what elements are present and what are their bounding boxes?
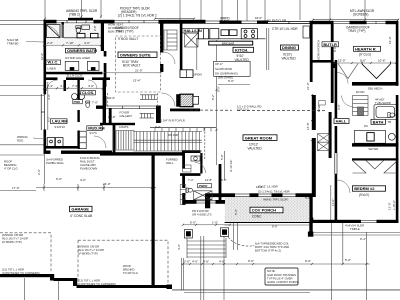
bath/bed divider wall [101,22,104,51]
svg-text:5'-0": 5'-0" [221,178,227,182]
suite door arc [163,52,175,64]
svg-text:10'-6": 10'-6" [378,59,386,63]
svg-text:CTR 10' LVL HDR: CTR 10' LVL HDR [272,27,298,31]
svg-text:9'-0": 9'-0" [155,125,161,129]
entry steps [187,238,226,258]
svg-text:BOX VAULT: BOX VAULT [123,64,140,68]
svg-text:(DN OVHD): (DN OVHD) [218,76,233,80]
svg-text:SLP CLG: SLP CLG [237,108,249,112]
suite east wall lower [160,64,163,72]
bottom vertical x331.5 [331,222,333,300]
owners bath south closet band upper [44,72,103,75]
dim line entry row [183,224,230,226]
window kitchen sink [205,21,220,23]
top dim tick x237.5 [237,0,239,22]
suite west wall seg2 [104,63,107,87]
svg-text:6'-2": 6'-2" [47,116,51,122]
rear yard line y232.5 [311,232,400,234]
garage front wall B [54,278,75,281]
svg-text:4'-0": 4'-0" [80,178,86,182]
porch bottom steps dim vertical x237.5 [237,198,239,250]
top exterior wall segment E [257,21,268,24]
svg-text:UP 17: UP 17 [215,62,223,66]
laundry south wall [44,146,80,149]
svg-text:9'-6": 9'-6" [360,59,366,63]
svg-text:18'-0": 18'-0" [255,16,262,20]
foyer toilet [186,188,192,192]
elevator shaft box [176,94,198,107]
front dim line y264 [181,263,370,265]
bath2 tub [374,105,397,120]
suite dim line y67.5 [103,72,162,74]
porch east wall [309,197,312,233]
svg-text:COATS: COATS [119,125,129,129]
text foyer [120,110,133,117]
water heater circle [79,94,85,100]
powder/closet divider wall [200,153,202,174]
svg-text:4'-0": 4'-0" [177,244,181,250]
walk inner line a [200,236,202,300]
text garden roof tray (hearth) [346,26,370,33]
suite south window band [106,106,156,109]
svg-text:4'-6": 4'-6" [88,84,94,88]
garage dim tick x152 [151,184,153,191]
svg-text:HALL/LIN: HALL/LIN [184,28,202,33]
svg-text:9'x7'6: 9'x7'6 [90,131,98,135]
text picket sldr [118,7,157,18]
label box bedrm2 [353,186,386,191]
window owners suite triple [114,20,159,23]
text garage door note 1 [2,233,28,244]
text roof brg center [123,264,138,275]
svg-text:W/ PATIO DR.: W/ PATIO DR. [267,19,287,23]
hearth south wall [352,82,399,86]
text furred wall mid [166,157,178,165]
svg-text:9'-0": 9'-0" [272,225,278,229]
hall bottom wall over garage [100,152,184,155]
svg-text:LINEN: LINEN [48,66,56,70]
top exterior wall segment A [44,20,57,24]
svg-text:x 10'-0": x 10'-0" [392,200,396,210]
svg-text:6'-6": 6'-6" [56,177,62,181]
svg-text:PWD: PWD [74,100,81,104]
front door wall right part [216,200,231,204]
svg-text:WALL: WALL [166,161,174,165]
text furred plmbg [46,158,65,166]
laundry east wall low [77,110,79,122]
svg-text:17'-6": 17'-6" [12,186,20,190]
bottom vertical x342.8 [342,222,344,264]
porch concrete stipple [225,197,309,222]
bed2 west wall mid [335,126,338,153]
powder vanity [191,156,200,161]
kitchen sink [221,30,237,36]
garage front wall C [77,285,169,288]
label box lndry hall [81,90,96,95]
top exterior wall segment G [350,21,367,24]
kitchen wall ovens [210,29,219,39]
svg-text:11'-0": 11'-0" [331,199,335,206]
top dim tick x77 [81,0,83,18]
master shower door arc [46,26,59,39]
top dim tick x222 [221,0,223,21]
laundry washer [47,138,55,148]
left margin line y85.5 [0,85,44,87]
bed2 south window [360,220,377,222]
mud lockers [78,131,86,149]
svg-text:PWDR: PWDR [199,184,208,188]
dining east cab [303,26,310,38]
dining patio door (thin double line) [268,22,310,24]
svg-text:GREAT ROOM: GREAT ROOM [245,135,273,140]
label box hearth [354,46,381,51]
bath entry arc [88,80,97,89]
kitchen/great room break line x216.5 [216,40,218,165]
walk inner line b [203,236,205,300]
tray lower dashed verticals [108,93,158,107]
dim texts hearth row [338,59,386,63]
left dim line y190 short [0,190,36,192]
svg-text:BOTTOM (TYP 4x 2): BOTTOM (TYP 4x 2) [255,249,281,253]
svg-text:16'-8": 16'-8" [306,122,310,130]
label box nook [198,184,212,188]
suite south wall [96,106,106,109]
garage left thin wall line [44,154,46,184]
top dim tick x330 [329,0,331,19]
svg-text:5'-0": 5'-0" [234,209,238,215]
rotated dim bed2 right [388,200,397,210]
svg-text:16'x8': 16'x8' [317,104,321,112]
top exterior wall segment H corner [386,21,399,24]
label box butler pantry [322,42,339,47]
suite rail balusters upper [140,95,158,100]
svg-text:GALLERY: GALLERY [120,114,133,118]
master shower [47,25,61,38]
garage front corner block [167,285,173,290]
svg-text:8'-0": 8'-0" [333,46,337,52]
text garden roof tray (suite) [115,26,139,33]
garage top wall mid part [61,151,112,154]
dashed porch column arc [228,237,252,246]
note box bottom right [265,268,299,285]
svg-text:9'-4": 9'-4" [360,237,366,241]
svg-text:SCRN PORCH: SCRN PORCH [317,40,321,60]
svg-text:9'1x5'10: 9'1x5'10 [55,125,66,129]
kitchen counter edge [196,38,266,40]
hearth corner fireplace V [362,62,391,79]
svg-text:13'-0": 13'-0" [338,59,346,63]
svg-text:DBL MECH: DBL MECH [368,87,382,91]
foyer west wall upper [109,108,112,125]
dashed garage door left jamb [77,240,79,285]
powder north wall [182,150,201,153]
laundry dryer [55,138,63,148]
svg-text:TRAY (TYP): TRAY (TYP) [348,29,365,33]
svg-text:KITCH.: KITCH. [235,47,248,52]
svg-text:3'-0": 3'-0" [337,104,341,110]
kitchen west cab line [196,39,198,70]
label box hall [334,119,349,124]
powder door arc [195,163,206,174]
svg-text:13'-4": 13'-4" [133,78,141,82]
suite west wall seg1 [104,51,107,57]
svg-text:6'-0": 6'-0" [190,220,196,224]
hearth closet door V left [338,64,358,79]
svg-text:COV PORCH: COV PORCH [252,208,276,213]
main stair treads [134,128,217,151]
svg-text:UP/DN: UP/DN [193,73,202,77]
top dim tick x300 [299,0,301,20]
text garage door note 2 [78,245,104,256]
text tub bath2 [375,98,391,105]
front terrace edge line 2 [184,291,310,293]
great room ridge dashed left part [190,109,232,111]
left margin line y155 [0,154,44,156]
svg-text:CONC: CONC [252,215,262,219]
dim texts suite bottom [92,78,141,119]
great room south corner block [205,193,210,208]
garage dim tick x78 [77,184,79,191]
left exterior wall upper [44,20,47,95]
svg-text:9'-6": 9'-6" [203,260,209,264]
window kitchen range [241,21,258,23]
svg-text:5'-8": 5'-8" [220,154,224,160]
svg-text:MUD.RM: MUD.RM [88,126,105,131]
great room east wall upper [312,95,316,130]
svg-text:GARAGE: GARAGE [71,207,89,212]
garage front step block A [50,274,54,281]
kitchen-dining divider line b [268,28,270,70]
kitchen range [241,29,257,39]
text chase stack [80,156,100,171]
svg-text:LAU.RM: LAU.RM [52,119,68,124]
mud hall door arc [94,136,106,148]
porch center dim line [268,198,270,223]
kitchen fridge [199,29,209,39]
hall east wall at lin closet [180,23,183,72]
front walk right rail [223,236,225,300]
svg-text:VAULTED: VAULTED [282,56,297,60]
svg-text:TRIPLE: TRIPLE [350,227,360,231]
svg-text:4" CONC SLAB: 4" CONC SLAB [70,214,92,218]
svg-text:TUB+SHWR: TUB+SHWR [375,101,391,105]
hearth west wall seg2 [331,62,337,68]
bath2 stair ladder [353,96,369,116]
interior dim slashes x312 [215,64,313,141]
front terrace edge line [172,289,400,291]
top exterior wall segment B [94,20,115,24]
svg-text:BRK BAR: BRK BAR [222,41,234,45]
label box lau rm [51,119,69,124]
right exterior wall [396,21,399,86]
svg-text:(2) 1 3/4x11 7/8 LVL HDR 2: (2) 1 3/4x11 7/8 LVL HDR 2 [118,13,157,17]
garage front wall A [0,274,52,277]
foyer east dim ticks [224,151,226,180]
text sldr triple bed2 [345,224,364,232]
svg-text:VAULTED: VAULTED [248,146,263,150]
front walk left rail b [183,258,185,290]
owners bath south wall c [92,77,110,80]
suite east closet shelves [164,30,177,50]
top dim tick x265 [264,0,266,22]
great room east wall lower [312,138,316,197]
text lvl hdr corners 2 [78,279,116,287]
svg-text:(CONTINUES TO CORNERS): (CONTINUES TO CORNERS) [78,282,116,286]
top exterior wall segment F [310,21,334,24]
svg-text:8'-2": 8'-2" [211,94,215,100]
svg-text:21'-0": 21'-0" [135,69,143,73]
top exterior wall segment D [220,21,242,24]
dim texts garage row [56,177,111,186]
svg-text:2'-8": 2'-8" [93,25,97,31]
wic shelves left [65,61,79,70]
porch floor edge line [225,222,311,224]
dining east wall [310,24,313,82]
text mtl awn sldr [350,9,375,17]
dining south buffet wall [312,60,332,63]
bed2 west wall lower [335,174,338,223]
hearth west wall [331,24,334,62]
porch back window 2 [258,194,272,196]
svg-text:5'-0": 5'-0" [345,258,351,262]
svg-text:ROD: ROD [17,138,23,142]
mud hall east wall [103,77,106,124]
foyer coat closet [114,131,135,151]
bed2 closet north wall [352,158,399,160]
svg-text:2'-0": 2'-0" [37,169,41,175]
laundry east wall [77,80,79,103]
master bed door arc [47,80,58,91]
svg-text:DN 16R: DN 16R [168,133,178,137]
porch SE corner block [308,232,313,237]
top exterior wall segment C [159,20,206,24]
front door opening [197,201,216,203]
svg-text:(9'x10'): (9'x10') [359,193,369,197]
hall linen x-closets right column [318,134,330,151]
label box great room [243,135,277,141]
top dim line over suite window [155,18,194,20]
bath/wic divider wall [62,22,64,38]
svg-text:(CONTINUES TO CORNERS): (CONTINUES TO CORNERS) [2,271,40,275]
svg-text:7'-4": 7'-4" [188,178,194,182]
label box owners bath [66,48,98,53]
window seat x-bench [194,191,213,200]
text roof bearing left [4,160,18,171]
svg-text:8'-2": 8'-2" [217,86,221,92]
svg-text:OWNERS BATH: OWNERS BATH [67,48,97,53]
vanity sink right [91,33,99,37]
svg-text:(9' CLG): (9' CLG) [359,53,371,57]
svg-text:W.I.C.: W.I.C. [48,60,59,65]
svg-text:9'C: 9'C [364,124,368,128]
hearth west wall seg2 [331,68,334,103]
svg-text:9' BOX VALLT: 9' BOX VALLT [118,37,138,41]
entry column left [184,230,192,238]
garage right wall [152,154,155,287]
label box kitchen [233,47,254,52]
window hearth rm right [366,21,386,23]
master toilet [76,26,81,33]
top dim tick x247 [246,0,248,21]
left margin line y144.8 [0,144,44,146]
bed2 west window [335,153,337,174]
hall door arc 1 [337,73,348,84]
bed2 closet bifold V [353,161,398,174]
svg-text:9'-0": 9'-0" [248,259,254,263]
svg-text:24'-0": 24'-0" [103,182,111,186]
svg-text:1R DN: 1R DN [356,90,364,94]
powder shelves [183,165,192,172]
svg-text:1'-0": 1'-0" [212,220,218,224]
foyer closet west wall [113,125,116,155]
bath2 toilet [388,113,395,118]
svg-text:9'-10 1/2": 9'-10 1/2" [229,159,233,172]
hall wall x329 seg3 [329,112,332,158]
svg-text:13'-8": 13'-8" [256,185,263,189]
svg-text:BATH: BATH [373,119,384,124]
porch back window 1 [235,194,250,196]
bath south wall [352,143,399,146]
garage dim tick x104 [103,184,105,191]
vanity counter line [64,37,101,39]
svg-text:10'-1 3/4" FLR-TO-FLR: 10'-1 3/4" FLR-TO-FLR [156,118,185,122]
bottom vertical x366.5 [366,232,368,300]
foyer west wall seg2 [182,175,185,188]
svg-text:(SCREEN): (SCREEN) [353,13,368,17]
leader line left text1 [26,41,44,44]
svg-text:GARG 4 FRONT PORCH: GARG 4 FRONT PORCH [267,280,299,284]
porch back wall seg2 [250,193,259,197]
svg-text:(TBB 2): (TBB 2) [69,12,80,16]
suite south wall corner column [156,106,161,124]
right exterior wall lower [396,95,399,223]
furnace circle [72,94,78,100]
suite west wall seg3 [104,96,107,106]
svg-text:SLDR: SLDR [220,20,229,24]
foyer east wall [219,164,222,201]
svg-text:OWNERS SUITE: OWNERS SUITE [120,52,151,57]
text wrpd sldr [220,17,230,24]
bedroom left dim vertical x330.8 [330,185,332,222]
great room ridge dashed [237,110,327,112]
svg-text:PLMB DOWN: PLMB DOWN [80,167,97,171]
garage top wall left part [44,151,51,154]
bed2 west wall upper [335,60,338,118]
bed2 south wall right [377,220,399,223]
svg-text:(3) 1 3/4x11 7/8 LVL HDR: (3) 1 3/4x11 7/8 LVL HDR [258,189,290,193]
label box wic [46,60,61,65]
svg-text:12'-0": 12'-0" [388,202,392,210]
left exterior wall lower [44,130,47,153]
bed2 south wall left [334,220,361,223]
svg-text:3/4 SNK HIG LINEN: 3/4 SNK HIG LINEN [65,56,90,60]
svg-text:14'-8": 14'-8" [205,178,212,182]
svg-text:4" DP CLG: 4" DP CLG [4,167,18,171]
dim line mud row [44,87,103,89]
window hearth rm left [333,21,350,23]
svg-text:5'-6": 5'-6" [228,79,234,83]
leader porch column note [253,245,255,247]
top dim tick x101 [100,0,102,18]
powder toilet mud [86,101,90,107]
svg-text:LP BKRS (TYP): LP BKRS (TYP) [2,240,22,244]
porch south jog corner [309,218,313,224]
svg-text:HEARTH R: HEARTH R [355,46,376,51]
dim line bath row [44,44,101,46]
window master bath triple [56,18,95,23]
bed2 door arc [337,180,350,193]
laundry dim vertical x47.8 [47,82,49,130]
